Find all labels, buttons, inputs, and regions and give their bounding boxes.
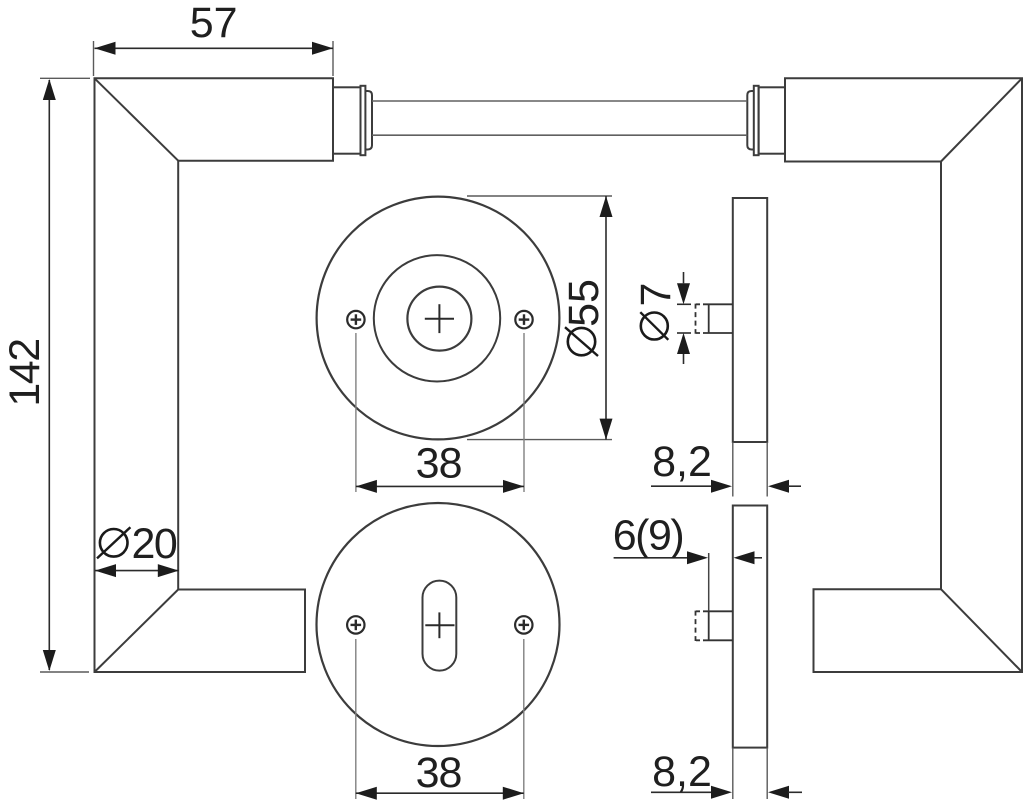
svg-text:7: 7 — [632, 283, 680, 307]
svg-text:8,2: 8,2 — [652, 438, 712, 486]
svg-text:6(9): 6(9) — [613, 512, 683, 560]
svg-text:8,2: 8,2 — [652, 748, 712, 796]
svg-text:142: 142 — [1, 339, 49, 406]
svg-text:57: 57 — [190, 0, 238, 47]
svg-text:55: 55 — [560, 279, 608, 327]
svg-text:38: 38 — [416, 440, 462, 488]
svg-text:38: 38 — [416, 749, 462, 797]
svg-text:20: 20 — [132, 520, 177, 568]
